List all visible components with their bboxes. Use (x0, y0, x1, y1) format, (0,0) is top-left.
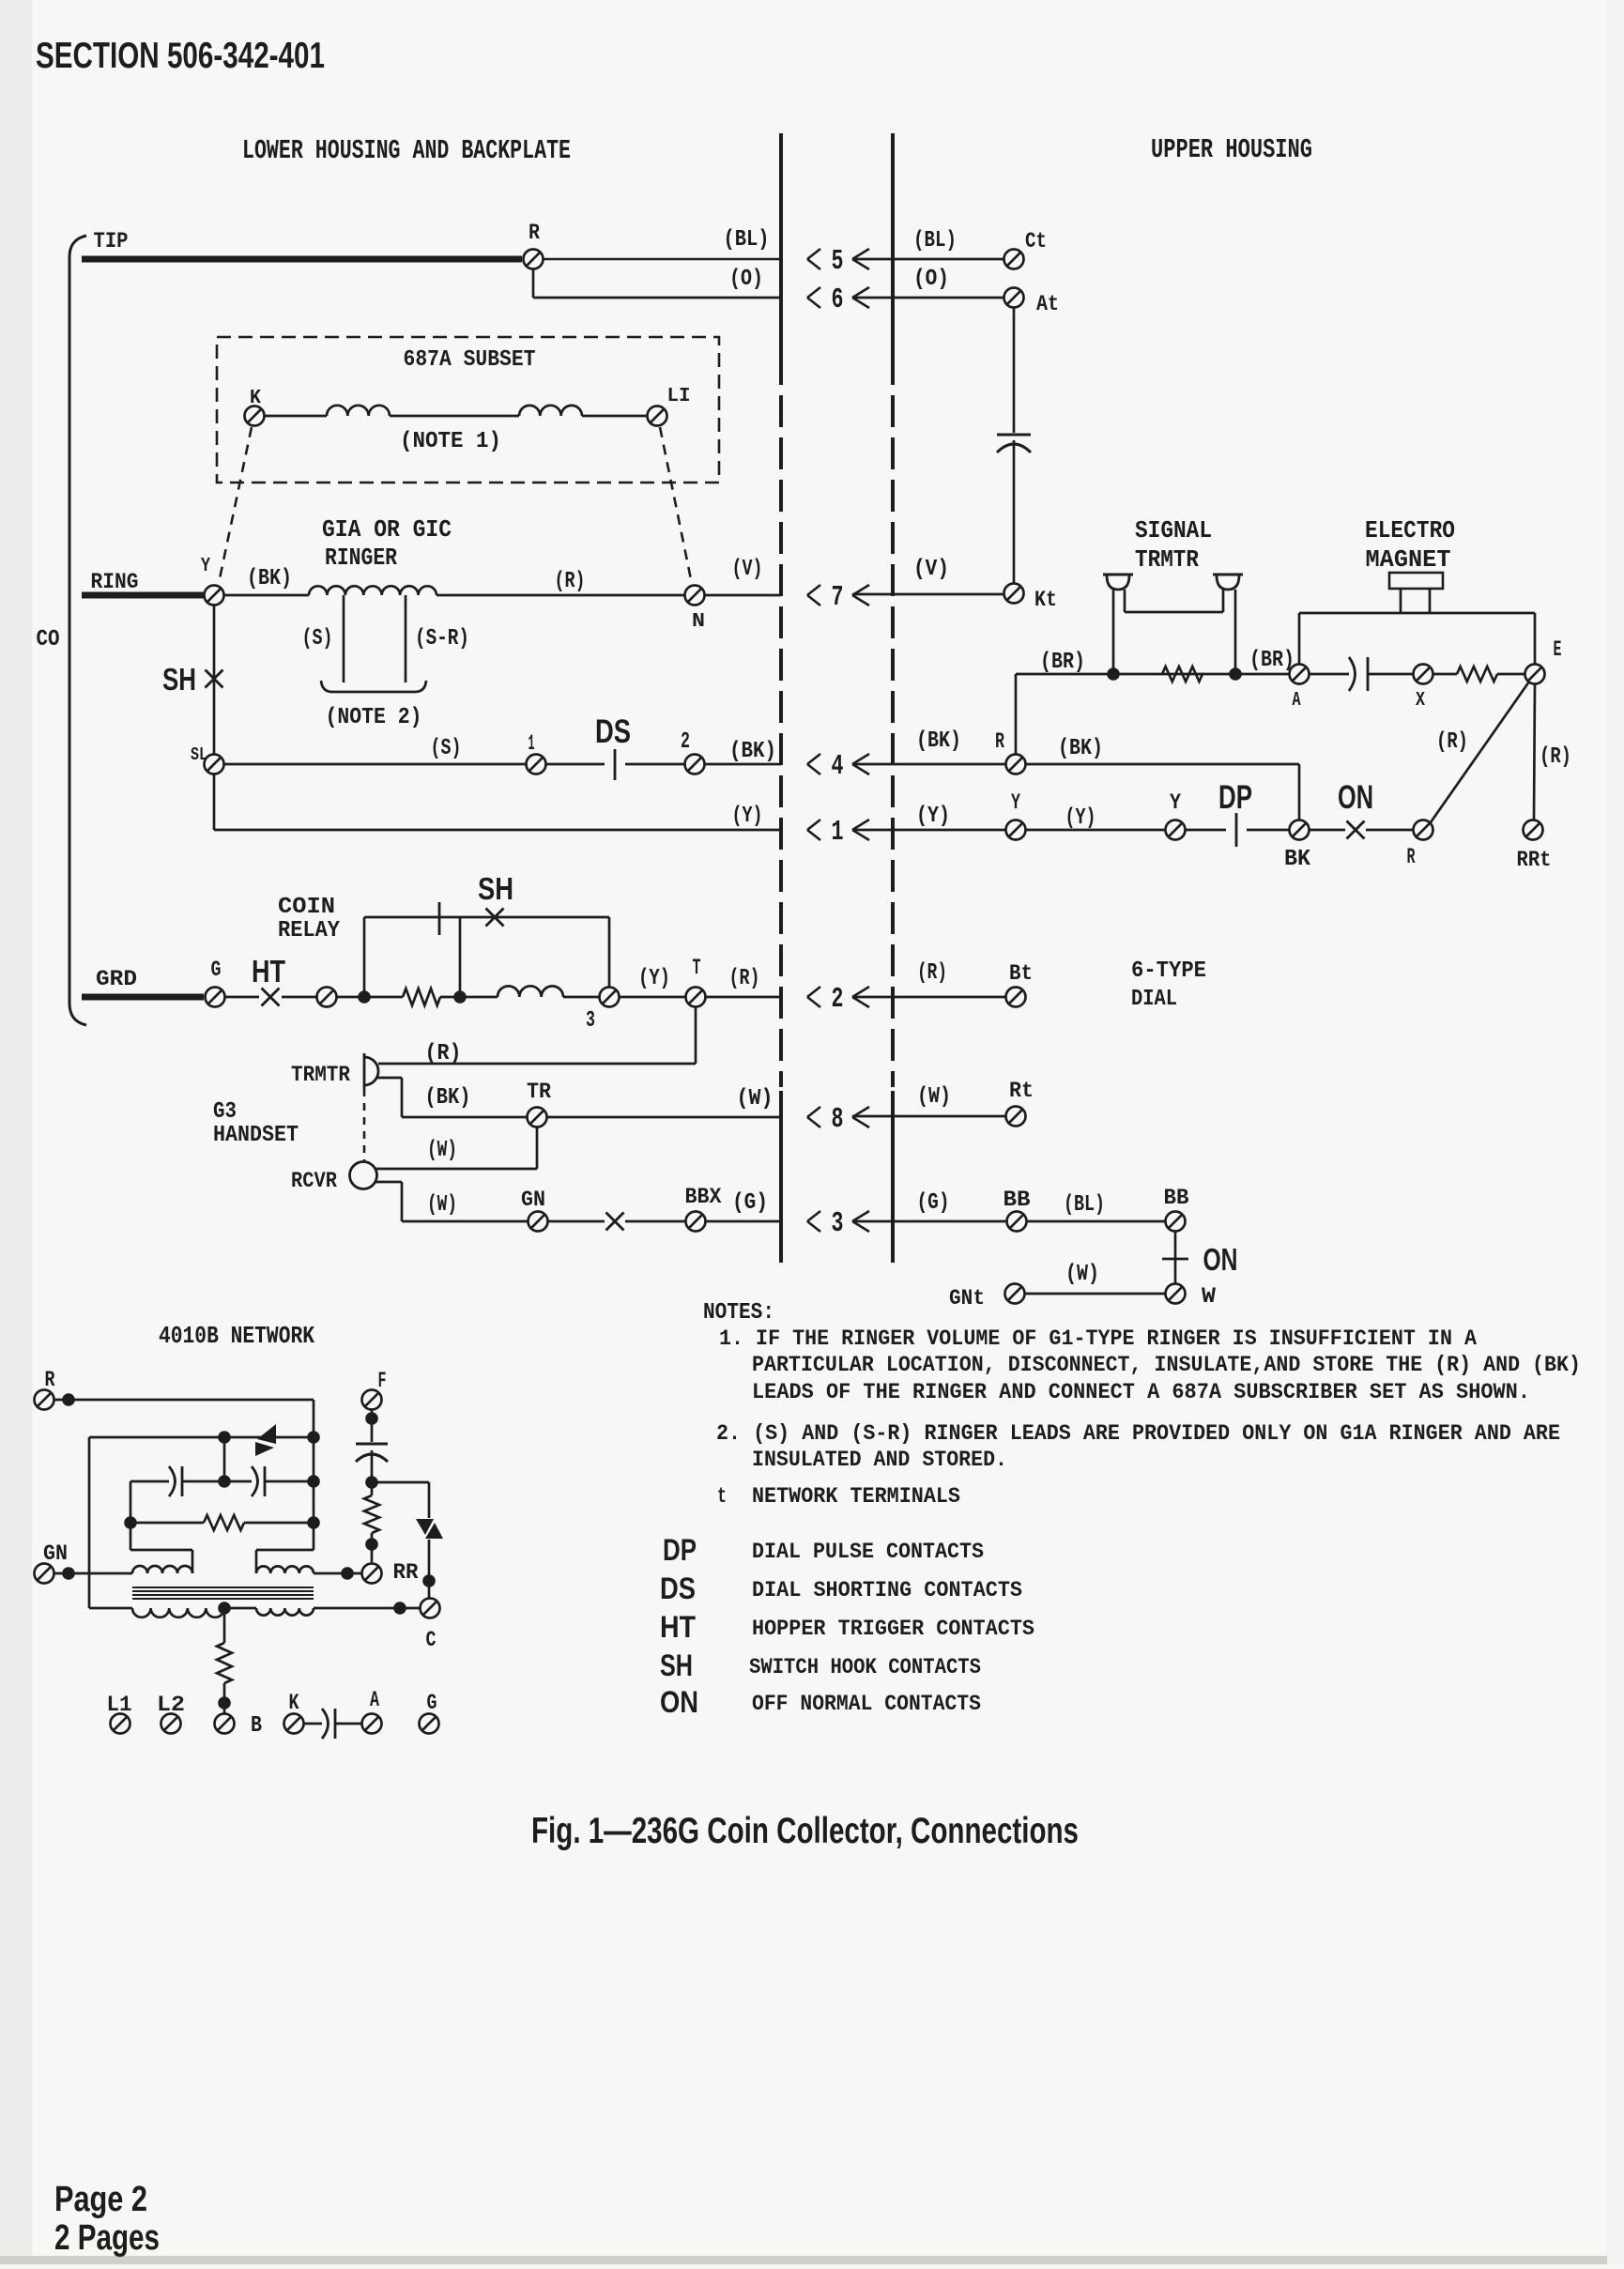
svg-text:t: t (717, 1484, 727, 1509)
svg-text:1: 1 (529, 731, 535, 756)
svg-text:(O): (O) (913, 267, 949, 292)
svg-text:(NOTE 2): (NOTE 2) (326, 705, 422, 730)
svg-text:OFF NORMAL CONTACTS: OFF NORMAL CONTACTS (752, 1692, 981, 1716)
svg-text:DS: DS (595, 713, 631, 750)
svg-text:R: R (529, 221, 540, 245)
svg-text:E: E (1554, 637, 1562, 662)
svg-text:ON: ON (660, 1685, 698, 1719)
svg-text:(BK): (BK) (247, 566, 292, 591)
svg-text:GRD: GRD (96, 967, 137, 991)
svg-text:SH: SH (478, 872, 513, 907)
svg-text:RCVR: RCVR (291, 1169, 337, 1193)
svg-text:(Y): (Y) (916, 804, 950, 829)
svg-text:LOWER HOUSING AND BACKPLATE: LOWER HOUSING AND BACKPLATE (242, 135, 571, 166)
svg-text:Rt: Rt (1009, 1079, 1034, 1103)
svg-text:SL: SL (191, 744, 207, 765)
svg-text:(R): (R) (555, 569, 586, 594)
svg-text:(BK): (BK) (425, 1085, 471, 1111)
svg-text:NETWORK TERMINALS: NETWORK TERMINALS (752, 1484, 960, 1509)
svg-text:SH: SH (660, 1648, 693, 1682)
svg-text:X: X (1416, 689, 1425, 712)
svg-text:6: 6 (832, 284, 844, 316)
svg-text:(W): (W) (917, 1084, 951, 1110)
svg-text:ON: ON (1203, 1243, 1238, 1278)
svg-text:K: K (289, 1691, 299, 1715)
svg-text:(G): (G) (917, 1190, 950, 1216)
svg-text:GN: GN (43, 1541, 68, 1566)
svg-text:HOPPER TRIGGER CONTACTS: HOPPER TRIGGER CONTACTS (752, 1617, 1034, 1641)
svg-text:(O): (O) (729, 267, 763, 292)
svg-text:DIAL PULSE CONTACTS: DIAL PULSE CONTACTS (752, 1540, 984, 1564)
svg-text:BB: BB (1164, 1186, 1189, 1210)
svg-text:4010B NETWORK: 4010B NETWORK (159, 1323, 314, 1350)
svg-text:T: T (693, 956, 701, 980)
svg-text:PARTICULAR LOCATION, DISCONNEC: PARTICULAR LOCATION, DISCONNECT, INSULAT… (752, 1353, 1581, 1377)
svg-text:(V): (V) (732, 557, 763, 582)
svg-text:R: R (1407, 845, 1416, 869)
svg-text:(W): (W) (1065, 1262, 1099, 1287)
svg-text:2: 2 (681, 729, 690, 755)
svg-text:(R): (R) (729, 966, 760, 991)
svg-text:DP: DP (663, 1533, 697, 1567)
svg-text:INSULATED AND STORED.: INSULATED AND STORED. (752, 1448, 1007, 1472)
svg-text:BB: BB (1004, 1188, 1031, 1212)
svg-text:6-TYPE: 6-TYPE (1131, 958, 1206, 984)
svg-text:Y: Y (1011, 790, 1020, 815)
svg-text:(R): (R) (917, 960, 947, 986)
svg-text:RELAY: RELAY (278, 918, 340, 943)
svg-text:(BR): (BR) (1040, 650, 1085, 675)
svg-text:TR: TR (527, 1080, 551, 1104)
svg-text:2: 2 (832, 984, 844, 1016)
svg-text:G: G (427, 1691, 437, 1715)
svg-text:SECTION 506-342-401: SECTION 506-342-401 (36, 36, 325, 76)
svg-text:SH: SH (162, 663, 196, 698)
svg-text:(R): (R) (425, 1041, 462, 1066)
svg-text:RR: RR (393, 1560, 419, 1585)
svg-text:HT: HT (660, 1610, 696, 1644)
svg-text:(Y): (Y) (732, 804, 763, 829)
svg-text:(R): (R) (1540, 744, 1571, 770)
svg-text:A: A (370, 1688, 379, 1712)
svg-text:HANDSET: HANDSET (213, 1123, 299, 1148)
svg-text:3: 3 (832, 1208, 844, 1240)
svg-text:G: G (211, 958, 222, 982)
svg-text:MAGNET: MAGNET (1366, 546, 1451, 574)
svg-text:CO: CO (37, 627, 60, 652)
svg-text:(BR): (BR) (1249, 648, 1295, 673)
svg-text:SIGNAL: SIGNAL (1135, 517, 1212, 544)
svg-text:GN: GN (521, 1188, 545, 1212)
svg-text:Ct: Ct (1025, 229, 1047, 253)
svg-text:(BK): (BK) (1058, 736, 1103, 761)
svg-text:DP: DP (1218, 779, 1252, 816)
svg-text:N: N (692, 610, 705, 633)
svg-text:(BK): (BK) (729, 739, 776, 764)
svg-text:K: K (250, 387, 261, 409)
svg-text:L1: L1 (107, 1693, 132, 1717)
svg-text:(BL): (BL) (724, 227, 770, 253)
svg-text:C: C (426, 1628, 437, 1652)
svg-text:(NOTE 1): (NOTE 1) (400, 429, 501, 454)
svg-text:Page 2: Page 2 (54, 2180, 147, 2219)
svg-text:(S): (S) (302, 626, 333, 652)
svg-text:DS: DS (660, 1571, 696, 1605)
svg-text:At: At (1036, 292, 1059, 316)
svg-text:Y: Y (1170, 790, 1181, 815)
svg-text:(BL): (BL) (1064, 1192, 1105, 1218)
svg-text:F: F (378, 1369, 387, 1393)
svg-text:Y: Y (201, 555, 210, 577)
svg-text:7: 7 (832, 582, 844, 614)
svg-text:LI: LI (667, 385, 691, 407)
svg-text:(S-R): (S-R) (415, 626, 469, 652)
svg-text:UPPER HOUSING: UPPER HOUSING (1151, 134, 1312, 165)
svg-text:COIN: COIN (278, 895, 335, 920)
svg-text:8: 8 (832, 1104, 844, 1136)
svg-text:NOTES:: NOTES: (703, 1300, 774, 1326)
svg-text:2. (S) AND (S-R) RINGER LEADS: 2. (S) AND (S-R) RINGER LEADS ARE PROVID… (716, 1421, 1560, 1446)
svg-text:R: R (995, 729, 1004, 754)
svg-text:ON: ON (1338, 779, 1373, 816)
svg-text:1. IF THE RINGER VOLUME OF G1-: 1. IF THE RINGER VOLUME OF G1-TYPE RINGE… (719, 1326, 1477, 1351)
svg-text:R: R (45, 1368, 55, 1392)
svg-text:Fig. 1—236G Coin Collector, Co: Fig. 1—236G Coin Collector, Connections (531, 1811, 1079, 1851)
svg-text:W: W (1202, 1284, 1216, 1309)
svg-text:TRMTR: TRMTR (1135, 546, 1199, 574)
svg-text:(R): (R) (1436, 729, 1468, 755)
svg-text:(W): (W) (427, 1138, 457, 1163)
svg-text:BBX: BBX (685, 1185, 722, 1209)
svg-text:5: 5 (832, 246, 844, 278)
svg-text:(W): (W) (427, 1192, 457, 1218)
svg-text:SWITCH HOOK CONTACTS: SWITCH HOOK CONTACTS (749, 1655, 981, 1679)
svg-text:LEADS OF THE RINGER AND CONNEC: LEADS OF THE RINGER AND CONNECT A 687A S… (752, 1380, 1530, 1404)
svg-text:(BK): (BK) (916, 728, 961, 754)
svg-text:(S): (S) (431, 736, 462, 761)
svg-text:RINGER: RINGER (325, 544, 397, 572)
svg-text:(BL): (BL) (913, 228, 957, 253)
svg-text:TIP: TIP (94, 229, 129, 253)
svg-text:(G): (G) (732, 1190, 768, 1216)
svg-text:DIAL SHORTING CONTACTS: DIAL SHORTING CONTACTS (752, 1578, 1022, 1602)
svg-text:BK: BK (1284, 847, 1310, 872)
svg-text:Bt: Bt (1009, 961, 1033, 986)
svg-text:GNt: GNt (949, 1286, 985, 1311)
svg-text:687A SUBSET: 687A SUBSET (404, 347, 536, 373)
svg-text:A: A (1293, 689, 1301, 712)
svg-text:ELECTRO: ELECTRO (1365, 517, 1455, 544)
svg-text:3: 3 (586, 1008, 595, 1034)
svg-text:(Y): (Y) (1065, 805, 1096, 831)
svg-text:B: B (251, 1713, 262, 1739)
svg-text:HT: HT (252, 955, 285, 989)
svg-text:4: 4 (832, 751, 844, 783)
svg-text:(V): (V) (913, 557, 949, 582)
svg-text:TRMTR: TRMTR (291, 1063, 350, 1087)
svg-text:1: 1 (832, 817, 844, 849)
svg-text:Kt: Kt (1034, 588, 1057, 612)
svg-text:GIA OR GIC: GIA OR GIC (322, 516, 452, 544)
svg-text:RRt: RRt (1517, 848, 1552, 872)
svg-text:L2: L2 (157, 1693, 185, 1717)
svg-text:2 Pages: 2 Pages (54, 2218, 160, 2258)
svg-text:G3: G3 (213, 1099, 237, 1125)
svg-text:(W): (W) (737, 1086, 774, 1112)
svg-text:DIAL: DIAL (1131, 987, 1177, 1012)
svg-text:(Y): (Y) (638, 966, 670, 991)
svg-text:RING: RING (91, 570, 139, 594)
